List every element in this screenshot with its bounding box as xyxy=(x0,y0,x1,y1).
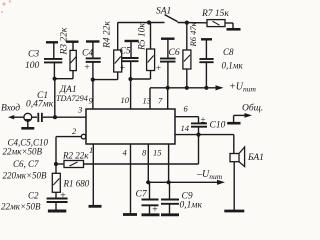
+Upit rail xyxy=(150,85,224,90)
svg-text:R3 22к: R3 22к xyxy=(60,27,70,55)
wire: output to speaker xyxy=(233,135,235,154)
resistor R7 15k xyxy=(207,20,233,29)
wire: pin 7 riser xyxy=(167,88,169,109)
ground (top of C5) xyxy=(125,40,139,42)
wire: pin 1 to ground xyxy=(92,144,94,206)
wire: SA1 right contact xyxy=(178,22,208,24)
wire: pin 10 riser xyxy=(130,79,132,109)
wire: feedback line R2 to output riser xyxy=(84,163,199,165)
svg-text:+: + xyxy=(152,205,159,216)
wire: C3 node down to input line xyxy=(54,79,56,118)
svg-text:±: ± xyxy=(201,115,206,125)
wire: pin 9 riser xyxy=(92,80,94,109)
svg-text:БА1: БА1 xyxy=(247,153,264,163)
svg-text:С5: С5 xyxy=(120,47,131,57)
svg-text:+: + xyxy=(155,64,161,74)
ground (R7) xyxy=(227,28,241,31)
svg-text:SA1: SA1 xyxy=(156,7,171,17)
svg-text:TDA7294: TDA7294 xyxy=(56,94,88,103)
node: C6/pin7 on rail xyxy=(166,86,170,90)
svg-text:13: 13 xyxy=(143,96,152,106)
wire: pin 6 to C10 xyxy=(175,117,199,123)
wire: pin 2 to feedback node xyxy=(56,137,81,164)
svg-text:С3: С3 xyxy=(28,50,39,60)
capacitor C5 xyxy=(122,41,139,79)
ground (C2) xyxy=(48,210,66,213)
ground (pin 1) xyxy=(89,205,102,208)
ground (pin 4) xyxy=(123,213,137,216)
wire: pin 4 to ground xyxy=(130,144,132,214)
node: C8 on rail xyxy=(204,86,208,90)
wire: node to R5 bottom xyxy=(131,78,151,80)
-Upit line with arrow xyxy=(146,180,225,185)
resistor R6 47k xyxy=(183,23,191,88)
node: R5 top on SA1 rail xyxy=(147,20,151,24)
svg-text:R6 47к: R6 47к xyxy=(188,21,198,47)
ground (C7) xyxy=(142,213,160,216)
svg-text:Общ.: Общ. xyxy=(242,103,263,114)
wire: pin 13 riser xyxy=(149,88,151,109)
resistor R5 10k xyxy=(147,23,155,80)
svg-text:С6: С6 xyxy=(169,48,180,58)
capacitor C1 xyxy=(38,113,42,122)
node: C10/feedback on output xyxy=(196,133,200,137)
resistor R1 680 xyxy=(52,164,60,198)
resistor R3 22k xyxy=(70,42,76,79)
speaker BA1 xyxy=(230,147,245,210)
Obshch terminal (common) xyxy=(227,113,252,123)
capacitor C10 xyxy=(191,123,207,164)
node: C3/R3 junction xyxy=(53,77,57,81)
capacitor C4 xyxy=(86,42,101,80)
svg-text:С4: С4 xyxy=(82,49,93,59)
svg-text:14: 14 xyxy=(181,123,190,133)
svg-text:15: 15 xyxy=(153,148,162,158)
svg-text:0,1мк: 0,1мк xyxy=(222,61,244,71)
wire: socket to C1 xyxy=(32,116,37,118)
node: C5/R5/pin10 junction xyxy=(128,77,132,81)
svg-text:+: + xyxy=(60,191,67,202)
svg-text:R2 22к: R2 22к xyxy=(62,151,89,161)
wire: C3 node to R3 bottom xyxy=(55,78,73,80)
wire: pin 15 riser xyxy=(168,144,170,182)
ground (top of C4) xyxy=(86,40,100,42)
svg-text:+: + xyxy=(119,63,125,73)
wire: SA1 rail (R4 top to switch) xyxy=(118,22,165,24)
connector X1 (input socket) xyxy=(21,113,34,128)
capacitor C9 xyxy=(161,182,179,213)
svg-text:100: 100 xyxy=(25,61,40,71)
ground (C9) xyxy=(161,213,179,216)
svg-text:0,1мк: 0,1мк xyxy=(180,201,203,211)
svg-text:С2: С2 xyxy=(28,191,39,201)
wire: output pin 14 line xyxy=(175,134,234,136)
pin 2 inversion circle xyxy=(81,134,86,139)
capacitor C3 xyxy=(44,42,62,78)
svg-text:С7: С7 xyxy=(136,190,148,200)
node: C4/R4/pin9 junction xyxy=(91,78,95,82)
capacitor C8 xyxy=(199,39,213,88)
node: pin15/C9 xyxy=(167,180,171,184)
svg-text:22мк×50В: 22мк×50В xyxy=(1,202,41,212)
scan speckles xyxy=(1,0,11,13)
input terminal arrow xyxy=(8,115,24,119)
node: input junction xyxy=(53,115,57,119)
svg-text:R4 22к: R4 22к xyxy=(103,21,113,49)
svg-text:R7 15к: R7 15к xyxy=(201,9,229,19)
op-amp U1 TDA7294 body xyxy=(86,109,175,144)
node: pin8/C7 xyxy=(146,180,150,184)
node: R6 on rail xyxy=(185,86,189,90)
svg-text:С6, С7: С6, С7 xyxy=(13,159,39,169)
capacitor C2 xyxy=(47,199,68,211)
svg-text:0,47мк: 0,47мк xyxy=(26,100,54,110)
svg-text:Вход: Вход xyxy=(1,103,20,114)
ground (top of C8) xyxy=(201,38,212,40)
ground (speaker) xyxy=(224,210,244,213)
svg-text:220мк×50В: 220мк×50В xyxy=(3,171,48,181)
node: R1/R2 junction xyxy=(54,162,58,166)
svg-text:R5 10к: R5 10к xyxy=(138,23,148,51)
ground (top of C6) xyxy=(161,38,175,40)
switch SA1 (open lever) xyxy=(165,15,178,22)
wire: pin 8 riser xyxy=(147,144,149,182)
ground (top of C3) xyxy=(46,41,58,43)
svg-text:С8: С8 xyxy=(223,47,234,57)
svg-text:22мк×50В: 22мк×50В xyxy=(3,147,43,157)
node: R6 top / SA1 right xyxy=(185,21,189,25)
svg-text:10: 10 xyxy=(121,95,130,105)
capacitor C6 xyxy=(160,39,176,88)
svg-text:R1 680: R1 680 xyxy=(63,179,90,189)
ground (top of R3) xyxy=(66,41,79,43)
resistor R2 22k xyxy=(56,161,84,168)
wire: node to R4 bottom xyxy=(93,79,118,81)
svg-text:С10: С10 xyxy=(210,121,226,131)
svg-text:3: 3 xyxy=(77,105,82,115)
svg-text:1: 1 xyxy=(89,145,93,155)
wire: C1 to pin 3 of DA1 xyxy=(43,116,86,118)
resistor R4 22k xyxy=(114,23,122,80)
svg-text:+: + xyxy=(84,63,90,73)
capacitor C7 xyxy=(142,182,159,213)
